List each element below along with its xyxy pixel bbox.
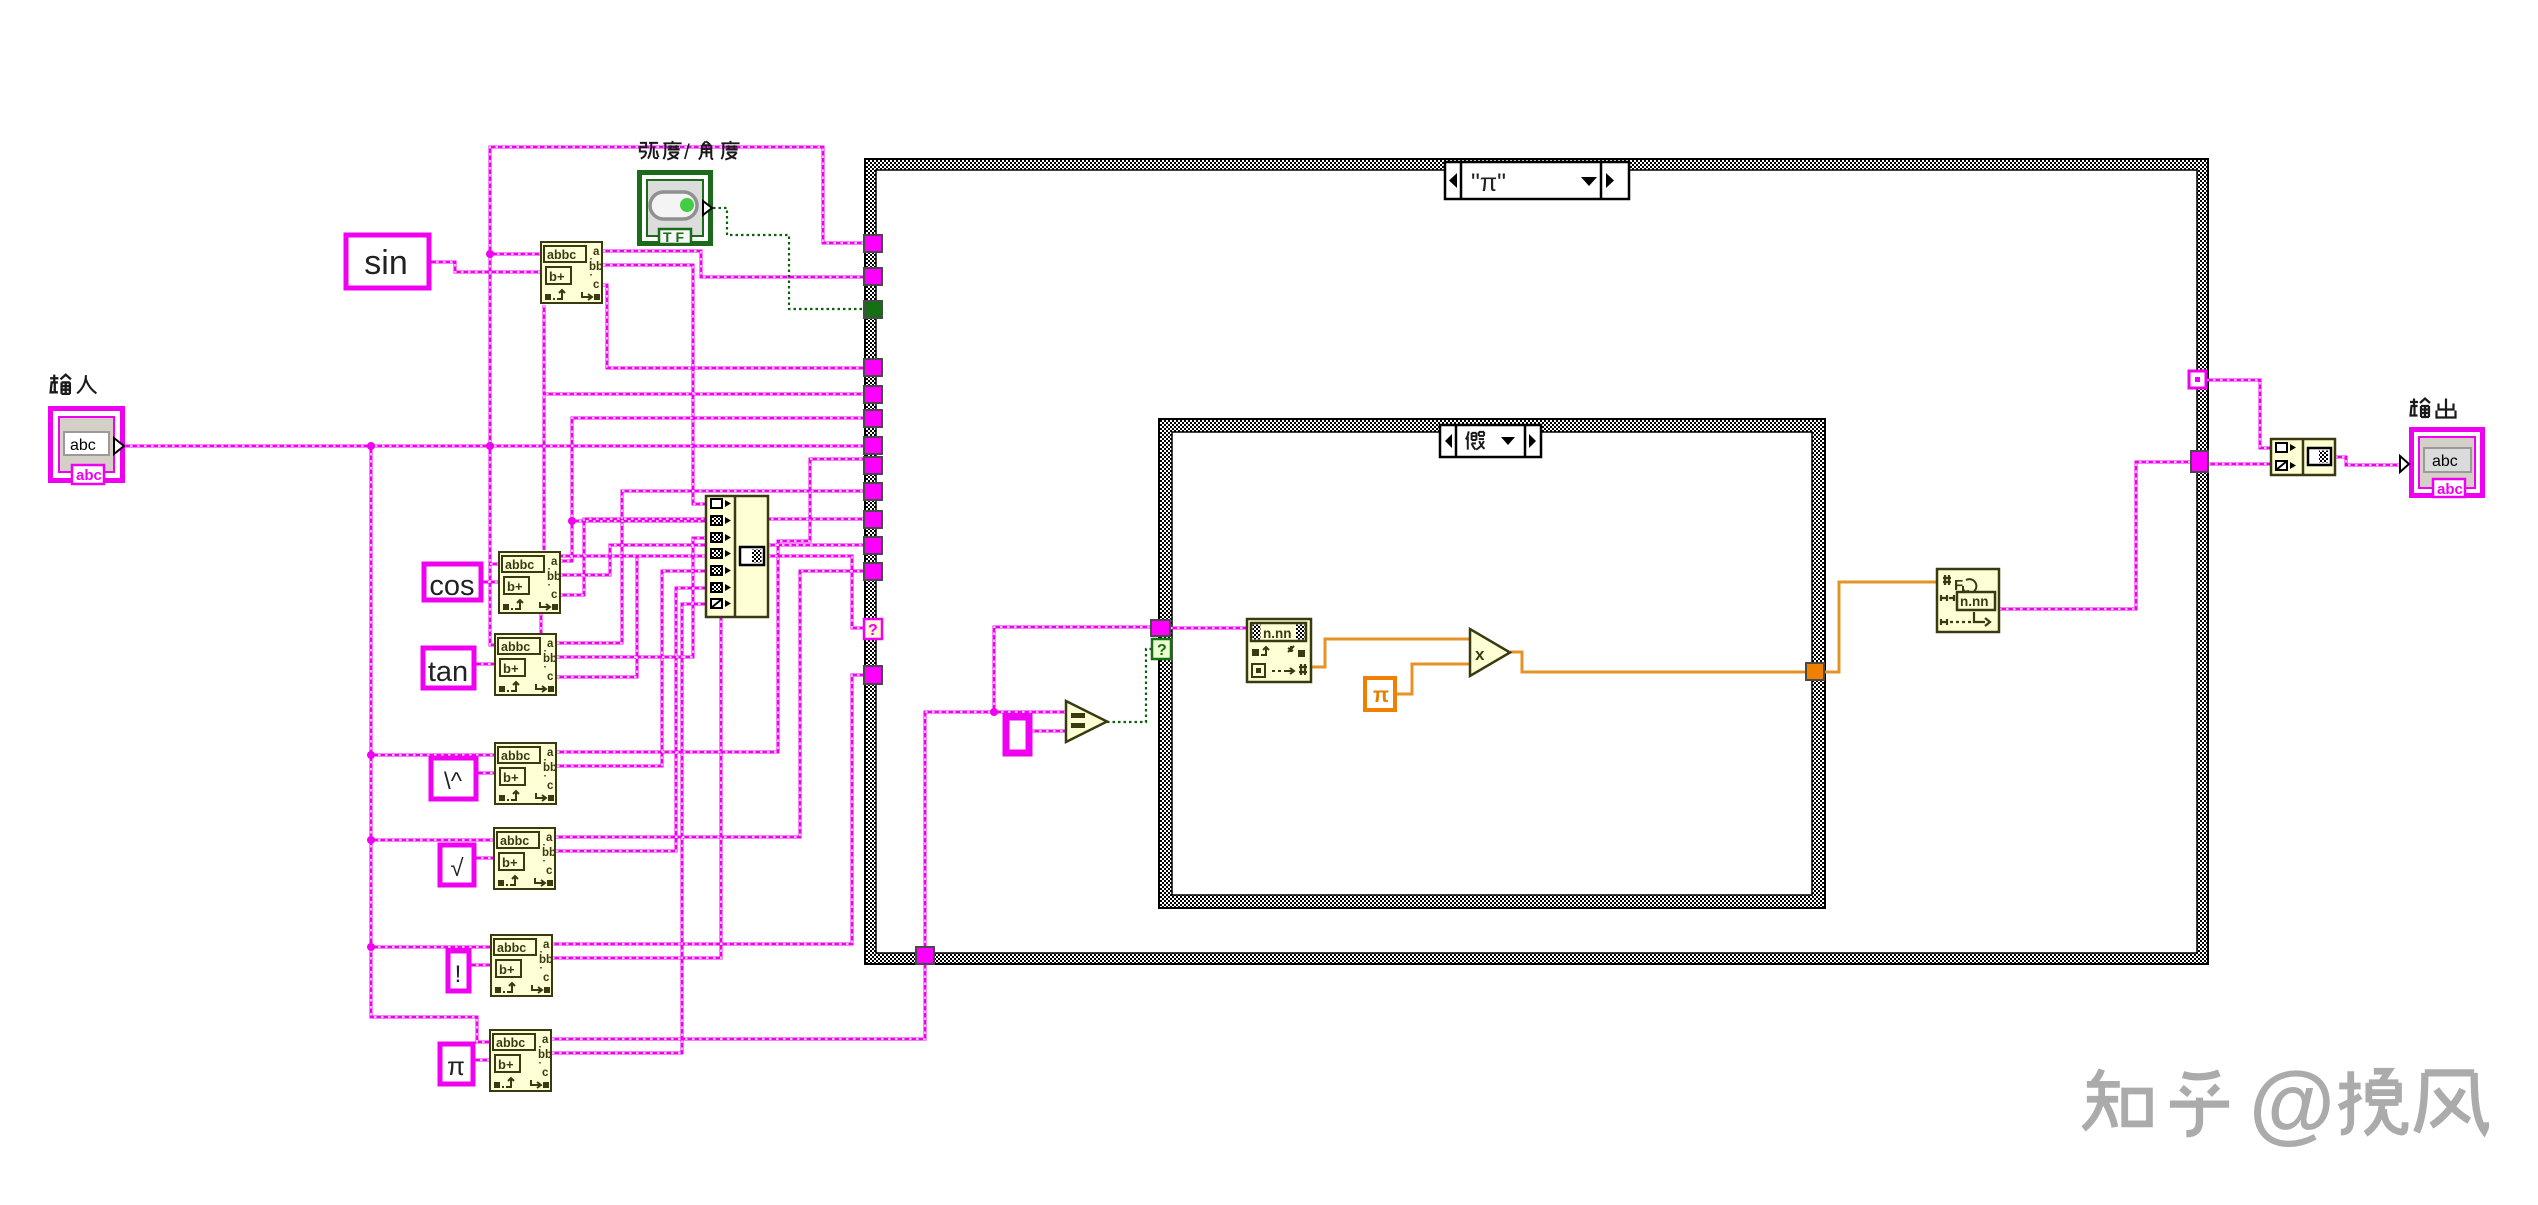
- svg-text:n.nn: n.nn: [1960, 594, 1989, 609]
- svg-text:π: π: [1373, 684, 1389, 707]
- svg-text:?: ?: [1157, 642, 1167, 659]
- svg-text:"π": "π": [1471, 169, 1506, 197]
- svg-text:sin: sin: [364, 244, 407, 282]
- svg-text:abc: abc: [2432, 453, 2458, 470]
- svg-text:@: @: [2249, 1053, 2335, 1152]
- svg-text:!: !: [455, 961, 462, 988]
- svg-text:n.nn: n.nn: [1263, 626, 1292, 641]
- svg-text:abc: abc: [2437, 481, 2463, 498]
- svg-text:x: x: [1475, 645, 1485, 664]
- svg-text:cos: cos: [429, 570, 474, 602]
- svg-text:T F: T F: [663, 229, 684, 245]
- svg-text:abc: abc: [76, 467, 102, 484]
- svg-text:abc: abc: [70, 437, 96, 454]
- svg-text:tan: tan: [428, 656, 468, 688]
- svg-text:?: ?: [868, 622, 878, 639]
- svg-text:\^: \^: [444, 768, 463, 795]
- svg-text:π: π: [447, 1051, 465, 1081]
- svg-text:/: /: [684, 141, 690, 164]
- svg-text:√: √: [450, 855, 464, 882]
